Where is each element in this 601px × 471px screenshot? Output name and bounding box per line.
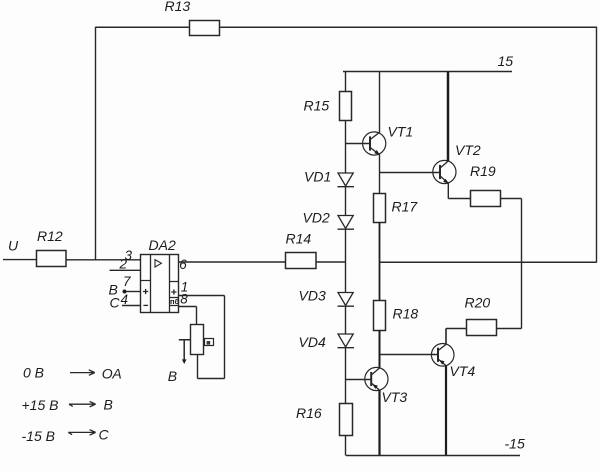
diode VD2	[338, 216, 353, 229]
svg-text:пб: пб	[170, 297, 180, 306]
resistor R15	[340, 92, 352, 121]
pin 2	[110, 269, 141, 271]
resistor R14	[286, 253, 317, 269]
wire VT1 collector	[379, 72, 381, 133]
+15 rail	[343, 71, 512, 73]
wire VT4 emitter bold	[445, 366, 447, 456]
wire VT1 emitter to VT2 base	[380, 172, 441, 174]
svg-text:DA2: DA2	[149, 237, 176, 253]
svg-text:2: 2	[119, 257, 128, 272]
wire input	[3, 259, 141, 261]
wire top feedback	[96, 26, 597, 28]
svg-text:ОА: ОА	[102, 366, 122, 382]
transistor VT3	[365, 367, 388, 390]
transistor VT1	[363, 132, 386, 155]
resistor R19	[471, 191, 501, 207]
svg-text:8: 8	[180, 291, 188, 306]
potentiometer adjust tab	[205, 339, 214, 346]
diode VD3	[338, 293, 353, 306]
svg-text:15: 15	[498, 53, 514, 69]
wire pin 1 to balance pot	[179, 296, 225, 379]
potentiometer body	[191, 325, 204, 355]
-15 rail	[346, 455, 520, 457]
transistor VT2	[433, 160, 456, 183]
svg-text:B: B	[168, 368, 177, 384]
svg-text:0 В: 0 В	[23, 365, 44, 381]
diode VD4	[338, 334, 353, 347]
svg-text:C: C	[110, 294, 121, 310]
svg-text:VT1: VT1	[388, 124, 414, 140]
resistor R16	[340, 404, 353, 436]
wire diode column	[345, 72, 347, 456]
wire right feedback vertical	[596, 27, 598, 263]
resistor R18	[374, 301, 386, 331]
svg-text:R12: R12	[37, 228, 63, 244]
wire R20 right	[497, 328, 522, 330]
svg-text:В: В	[104, 397, 113, 413]
resistor R20	[467, 320, 497, 336]
resistor R17	[374, 194, 386, 223]
svg-text:VD4: VD4	[299, 334, 326, 350]
svg-text:R20: R20	[465, 295, 491, 311]
svg-text:VD2: VD2	[303, 209, 330, 225]
svg-text:VT4: VT4	[450, 363, 476, 379]
svg-text:R16: R16	[296, 405, 322, 421]
svg-text:U: U	[8, 238, 19, 254]
resistor R12	[37, 251, 67, 267]
pin 4	[122, 305, 141, 307]
wire R18 to VT3 bold	[379, 331, 381, 369]
wire left feedback vertical	[95, 27, 97, 261]
svg-text:VD3: VD3	[299, 287, 326, 303]
svg-text:R17: R17	[392, 199, 419, 215]
wire VT4 collector	[446, 329, 467, 345]
diode VD1	[338, 173, 353, 186]
svg-text:R15: R15	[304, 98, 330, 114]
svg-text:VD1: VD1	[304, 169, 331, 185]
pin 7	[125, 291, 141, 293]
wire output line	[380, 261, 597, 263]
svg-text:7: 7	[123, 274, 131, 289]
transistor VT4	[431, 344, 454, 367]
svg-text:4: 4	[121, 292, 129, 307]
wire VT1 emitter to R17	[379, 155, 381, 194]
wire VT3 emitter bold	[378, 390, 380, 456]
wire VT4 base	[380, 354, 439, 356]
potentiometer wiper arrow	[179, 340, 191, 361]
svg-text:VT2: VT2	[455, 142, 481, 158]
svg-text:-15 В: -15 В	[22, 428, 55, 444]
svg-text:R13: R13	[165, 0, 191, 14]
pin 6	[179, 261, 346, 263]
wire R17 to R18 bold	[379, 223, 381, 301]
svg-text:6: 6	[179, 257, 187, 272]
svg-text:С: С	[99, 427, 110, 443]
wire pin 8 to balance pot	[179, 307, 197, 325]
svg-text:R19: R19	[470, 163, 496, 179]
svg-text:R14: R14	[286, 231, 312, 247]
svg-text:R18: R18	[393, 306, 419, 322]
wire VT2 emitter to R19	[448, 183, 470, 199]
svg-text:+15 В: +15 В	[22, 397, 59, 413]
svg-text:VT3: VT3	[382, 389, 408, 405]
svg-text:-15: -15	[505, 436, 525, 452]
wire VT2 collector bold	[447, 72, 450, 162]
wire R19 right	[501, 199, 522, 329]
resistor R13	[190, 21, 220, 36]
